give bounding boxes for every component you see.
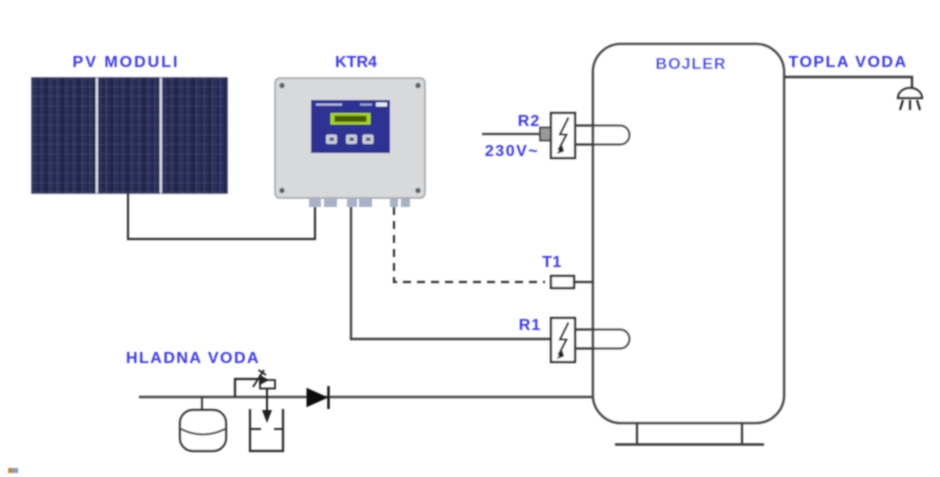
boiler tank xyxy=(593,44,784,423)
wire dashed KTR4 to T1 xyxy=(394,207,545,282)
svg-text:R2: R2 xyxy=(518,113,540,130)
expansion vessel xyxy=(180,397,226,451)
svg-text:HLADNA VODA: HLADNA VODA xyxy=(126,350,260,367)
svg-text:BOJLER: BOJLER xyxy=(656,56,727,73)
svg-text:T1: T1 xyxy=(542,254,562,271)
svg-text:230V~: 230V~ xyxy=(485,143,539,160)
drain funnel xyxy=(250,409,283,451)
floor line xyxy=(615,443,764,445)
controller KTR4 xyxy=(275,78,425,198)
svg-text:R1: R1 xyxy=(519,317,541,334)
page corner mark xyxy=(8,468,18,473)
sensor T1 xyxy=(551,276,593,288)
pipe hot water xyxy=(784,77,912,88)
heater R1 xyxy=(551,318,630,362)
safety valve xyxy=(235,370,275,423)
svg-text:KTR4: KTR4 xyxy=(335,54,377,71)
boiler legs xyxy=(637,423,742,444)
heater R2 xyxy=(540,113,630,158)
svg-text:PV MODULI: PV MODULI xyxy=(73,54,180,71)
svg-text:TOPLA VODA: TOPLA VODA xyxy=(788,54,907,71)
check valve xyxy=(307,386,329,409)
PV panel array xyxy=(32,78,227,193)
wire PV to KTR4 xyxy=(128,193,315,239)
pipe cold water xyxy=(139,396,593,398)
wire KTR4 to R1 xyxy=(351,207,551,339)
shower head xyxy=(898,88,922,110)
wire 230V supply to R2 xyxy=(482,133,540,135)
KTR4 terminal blocks xyxy=(309,198,410,207)
